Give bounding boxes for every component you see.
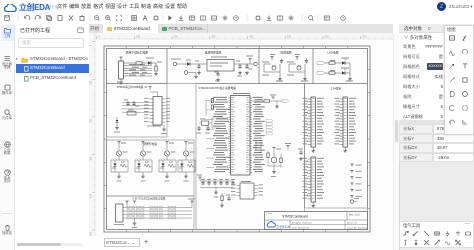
svg-text:700: 700 xyxy=(362,35,367,39)
LED D7 xyxy=(138,160,140,164)
LED D5 xyxy=(116,117,118,120)
branch 2 power flag xyxy=(141,142,144,144)
regulator U2 AMS1117-3.3 xyxy=(207,60,234,72)
resistor R2 vertical xyxy=(155,66,157,71)
ground below xyxy=(220,204,224,208)
svg-text:400: 400 xyxy=(90,194,93,199)
power flag Q xyxy=(272,148,275,150)
net label clusters xyxy=(127,206,130,208)
svg-text:TITLE:: TITLE: xyxy=(266,213,273,215)
ground header J4 xyxy=(312,147,314,149)
capacitor xyxy=(305,59,308,64)
branch 3 power flag xyxy=(165,142,168,144)
capacitor C6 xyxy=(132,101,135,106)
connector J3 xyxy=(116,204,124,222)
wires xyxy=(263,64,265,72)
cell box wires xyxy=(178,159,195,161)
svg-text:100: 100 xyxy=(90,81,93,86)
boot circuit top right xyxy=(252,100,264,102)
ground branch 1 xyxy=(118,172,120,175)
nets down right xyxy=(255,140,257,150)
wire up xyxy=(157,92,159,97)
resistor R6 xyxy=(120,164,127,167)
capacitor C3 xyxy=(238,64,241,69)
capacitor C1 xyxy=(197,64,200,69)
LED D4 xyxy=(342,71,345,75)
svg-text:300: 300 xyxy=(90,156,93,161)
IC U3 CH340N xyxy=(153,97,162,126)
svg-text:电源转换电路: 电源转换电路 xyxy=(205,51,222,55)
cap C15 xyxy=(227,196,230,201)
diode D2 xyxy=(187,62,190,66)
sheet tab bar at bottom of canvas xyxy=(89,236,393,250)
LED D3 xyxy=(342,61,345,65)
decoupling caps VCC flag xyxy=(198,177,201,179)
resistor R14 xyxy=(280,158,282,163)
capacitor C9 xyxy=(214,181,216,183)
wire xyxy=(177,63,187,65)
power flag +3V3 xyxy=(248,59,251,61)
capacitor C7 xyxy=(202,181,204,183)
pin header J5 xyxy=(343,97,348,147)
coord rows xyxy=(399,120,474,124)
net flag far right xyxy=(286,146,289,148)
resistor R9 xyxy=(187,164,194,167)
decoupling bus top xyxy=(200,180,233,182)
ground branch 4 xyxy=(185,172,187,175)
wires to left xyxy=(122,101,150,103)
pins J1 xyxy=(124,62,128,64)
connector circles bottom right xyxy=(350,200,353,203)
power flag J3 b xyxy=(133,201,136,203)
pin header J6 xyxy=(311,157,316,202)
resistor R7 xyxy=(144,164,151,167)
canvas scrollbar strip xyxy=(393,33,399,250)
svg-text:400: 400 xyxy=(249,35,254,39)
right net pennant column xyxy=(266,120,273,123)
capacitor C4 xyxy=(245,64,248,69)
ground branch 2 xyxy=(142,172,144,175)
svg-text:Drawn By: zhuzhu03: Drawn By: zhuzhu03 xyxy=(347,226,368,229)
pins U3 left xyxy=(150,98,154,100)
power flag xyxy=(295,57,298,59)
connector P1 VIN xyxy=(173,62,177,66)
MCU U1 body xyxy=(231,96,251,176)
resistor R13 xyxy=(267,153,269,158)
ground B4 xyxy=(349,63,351,73)
net pennant 2 xyxy=(317,72,325,75)
ground header J5 xyxy=(344,147,346,149)
pushbutton SW2 xyxy=(297,66,301,70)
svg-text:STM32F103C8T6最小系统电路: STM32F103C8T6最小系统电路 xyxy=(199,86,237,90)
wire bundle xyxy=(127,65,152,67)
svg-text:Sheet: 1/1: Sheet: 1/1 xyxy=(347,222,358,225)
svg-text:STM32串口转USB电路 V1: STM32串口转USB电路 V1 xyxy=(117,85,148,89)
cell box wires xyxy=(111,159,128,161)
capacitor xyxy=(280,59,283,64)
ground header J6 xyxy=(312,202,314,204)
connector P2 GND xyxy=(184,71,188,75)
svg-text:通用下载接口电路: 通用下载接口电路 xyxy=(126,51,149,55)
capacitor C8 xyxy=(208,181,210,183)
svg-text:0.96寸OLED显示屏接口电路: 0.96寸OLED显示屏接口电路 xyxy=(133,197,166,201)
resistor R8 xyxy=(168,164,175,167)
U1 right pins xyxy=(250,97,252,99)
panel bottom scrollbar xyxy=(17,243,83,246)
left bus wire xyxy=(205,100,207,116)
power flag B5 xyxy=(148,87,151,89)
power flags column xyxy=(350,164,353,166)
properties xyxy=(399,33,474,120)
ground xyxy=(279,72,281,77)
transistor circuit right xyxy=(271,157,277,163)
wires Q xyxy=(268,165,281,167)
svg-text:2.54排针: 2.54排针 xyxy=(330,87,341,91)
svg-text:按键电路: 按键电路 xyxy=(280,51,291,55)
capacitor C10 xyxy=(220,181,222,183)
block borders xyxy=(107,49,168,84)
sheet frame xyxy=(104,46,370,232)
svg-text:LED电路: LED电路 xyxy=(327,51,338,55)
title block xyxy=(265,212,368,230)
ground decoupling xyxy=(214,191,218,195)
ground P2 xyxy=(195,73,197,76)
diode D1 xyxy=(148,61,151,65)
branch 1 power flag xyxy=(117,142,120,144)
resistor R3 xyxy=(329,62,335,64)
net pennant 1 xyxy=(317,62,325,65)
svg-text:Designer: zhuzhu03: Designer: zhuzhu03 xyxy=(292,222,312,225)
IC U4 8-pin xyxy=(240,183,254,199)
small parts far right xyxy=(299,150,302,155)
ground Q xyxy=(272,170,276,174)
crystal circuit xyxy=(202,121,209,126)
net pennant xyxy=(282,100,289,103)
pins U3 right xyxy=(162,98,166,100)
left resistors xyxy=(211,99,213,103)
svg-text:300: 300 xyxy=(211,35,216,39)
transistor Q3 xyxy=(164,151,169,156)
capacitor C11 xyxy=(226,181,228,183)
U1 left pins xyxy=(229,97,231,99)
power flag boot xyxy=(271,97,274,99)
ground under J1 xyxy=(120,79,122,81)
ground bus B2 xyxy=(198,69,200,71)
ground boot top xyxy=(276,101,278,105)
tree xyxy=(16,56,18,61)
ground under R2 xyxy=(154,72,158,76)
svg-text:立创EDA: 立创EDA xyxy=(276,224,290,229)
wires xyxy=(288,64,290,72)
power flag VCC xyxy=(119,57,122,59)
pin header J4 xyxy=(311,97,316,147)
branch 4 power flag xyxy=(184,142,187,144)
avatar xyxy=(437,2,446,11)
ground right B5 xyxy=(163,125,165,128)
cell box wires xyxy=(135,159,152,161)
ground branch 3 xyxy=(166,172,168,175)
svg-text:100: 100 xyxy=(136,35,141,39)
LED D6 xyxy=(114,160,116,164)
resistor R4 xyxy=(329,72,335,74)
transistor Q2 xyxy=(140,151,145,156)
svg-text:Date: 2021-07-10: Date: 2021-07-10 xyxy=(292,226,310,229)
wire bundle xyxy=(123,207,192,209)
resistor R1 xyxy=(136,62,142,64)
svg-text:STM32CoreBoard: STM32CoreBoard xyxy=(282,214,308,218)
capacitor C5 xyxy=(126,101,129,106)
decoupling bus bottom xyxy=(200,186,233,188)
capacitor C12 xyxy=(232,181,234,183)
wire label flag right xyxy=(190,201,193,203)
power flag xyxy=(270,57,273,59)
svg-text:200: 200 xyxy=(174,35,179,39)
connector P3 out xyxy=(254,62,258,66)
capacitor C2 xyxy=(216,72,219,77)
电气工具 palette xyxy=(399,221,474,248)
pushbutton SW1 xyxy=(272,66,276,70)
svg-text:Rev: 1.0.0: Rev: 1.0.0 xyxy=(349,214,360,216)
cell box wires xyxy=(159,159,176,161)
LCEDA logo in titleblock xyxy=(267,221,275,227)
transistor Q4 xyxy=(183,151,188,156)
ground J3 xyxy=(134,218,136,222)
crystal Y1 xyxy=(127,112,136,116)
ground left B5 xyxy=(116,122,118,126)
svg-text:200: 200 xyxy=(90,118,93,123)
ground xyxy=(304,72,306,77)
power flag J3 a xyxy=(125,201,128,203)
transistor Q1 xyxy=(116,151,121,156)
parts below caps xyxy=(221,196,223,201)
LED D9 xyxy=(181,160,183,164)
connector J1 xyxy=(119,61,124,79)
LED D8 xyxy=(162,160,164,164)
svg-text:500: 500 xyxy=(287,35,292,39)
svg-text:600: 600 xyxy=(324,35,329,39)
